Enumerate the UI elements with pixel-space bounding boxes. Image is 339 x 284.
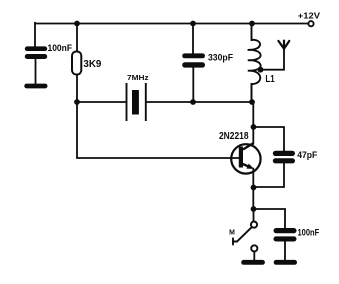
svg-text:100nF: 100nF [298,228,320,238]
capacitor C3 47pF plates [273,151,295,164]
wire C3 bottom [283,163,285,187]
svg-text:M: M [229,230,235,237]
ground below C1 [24,84,47,89]
capacitor C2 330pF plates [182,53,205,67]
terminal +12V [308,21,313,26]
svg-text:+12V: +12V [298,12,321,21]
ground below switch [241,260,265,265]
wire C2 bottom [192,68,194,103]
node L1 tap [258,67,264,73]
switch M upper contact [251,222,257,228]
wire C1 to ground [35,59,37,85]
wire collector vertical [252,102,254,144]
switch M lever [233,227,252,244]
svg-text:47pF: 47pF [297,150,317,161]
wire collector to C3 [254,126,285,128]
node L1 bottom [249,99,255,105]
capacitor C1 100nF plates [25,46,47,59]
node collector [251,124,257,130]
svg-text:100nF: 100nF [48,43,73,54]
crystal X1 7MHz [127,83,146,121]
wire crystal right [146,101,193,103]
svg-text:L1: L1 [265,74,274,85]
ground below C4 [274,260,297,265]
node rail-R1 [74,21,80,27]
wire emitter node to C4 [254,209,286,228]
wire switch bottom to ground [253,252,255,261]
switch M lower contact [251,245,257,251]
node C2-crystal [190,99,196,105]
wire C3 to emitter node [254,186,285,188]
node emitter [251,185,257,191]
wire C3 top [283,127,285,151]
wire left drop to C1 [34,23,36,47]
inductor L1 coil [248,24,261,103]
wire R1 top [76,24,78,52]
capacitor C4 100nF plates [274,228,297,242]
wire base left vertical [76,102,78,158]
antenna [278,41,289,49]
svg-text:3K9: 3K9 [83,59,101,70]
wire node-B rail left [77,101,126,103]
transistor Q1 2N2218 [231,143,260,173]
wire base horizontal [77,157,239,159]
wire C4 to ground [284,242,286,261]
wire switch top [253,209,255,222]
svg-text:2N2218: 2N2218 [219,131,249,142]
wire C2 top [192,24,194,54]
node emitter-switch [251,206,257,212]
resistor R1 3K9 [72,52,81,75]
wire L1 bottom [251,85,253,103]
wire L1 tap to antenna [261,49,285,70]
wire R1 bottom [76,75,78,103]
svg-text:7MHz: 7MHz [127,73,149,82]
wire node-B rail right [193,101,252,103]
node rail-L1 [249,21,255,27]
node rail-C2 [190,21,196,27]
wire top rail [35,23,308,25]
node R1-crystal [74,99,80,105]
wire emitter down [252,169,254,210]
svg-text:330pF: 330pF [208,53,233,63]
